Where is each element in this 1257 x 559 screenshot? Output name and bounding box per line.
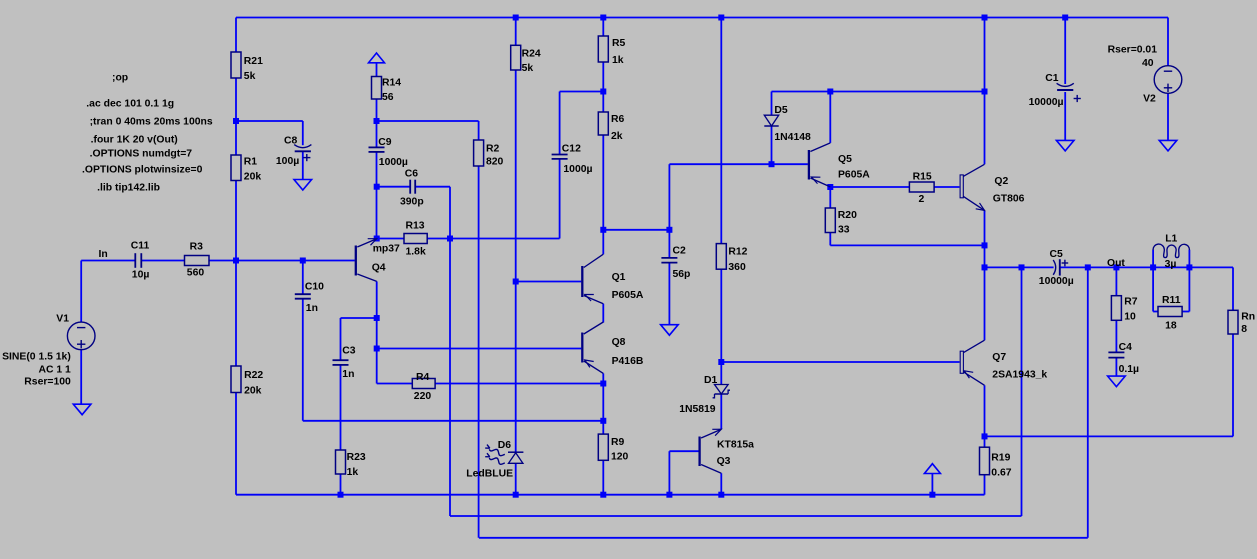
svg-text:R6: R6	[611, 114, 625, 125]
svg-text:In: In	[99, 249, 108, 260]
svg-text:1.8k: 1.8k	[406, 247, 426, 258]
svg-text:R20: R20	[838, 210, 857, 221]
svg-text:V1: V1	[56, 314, 69, 325]
svg-text:R24: R24	[522, 49, 541, 60]
svg-text:C5: C5	[1050, 249, 1064, 260]
svg-text:C1: C1	[1045, 73, 1059, 84]
svg-text:1000µ: 1000µ	[379, 157, 408, 168]
svg-text:P605A: P605A	[838, 170, 870, 181]
svg-text:18: 18	[1165, 321, 1177, 332]
svg-text:R15: R15	[913, 172, 932, 183]
svg-text:C4: C4	[1119, 342, 1133, 353]
svg-text:R13: R13	[406, 220, 425, 231]
svg-text:56: 56	[382, 92, 394, 103]
svg-text:R2: R2	[486, 143, 500, 154]
svg-text:Q1: Q1	[612, 272, 626, 283]
svg-text:1n: 1n	[306, 303, 318, 314]
svg-text:2: 2	[919, 194, 925, 205]
svg-text:5k: 5k	[522, 63, 534, 74]
svg-text:33: 33	[838, 224, 850, 235]
svg-text:100µ: 100µ	[276, 156, 299, 167]
svg-text:Rn: Rn	[1241, 312, 1255, 323]
svg-text:LedBLUE: LedBLUE	[466, 468, 513, 479]
svg-text:C9: C9	[378, 137, 392, 148]
svg-text:C8: C8	[284, 136, 298, 147]
svg-text:10µ: 10µ	[132, 269, 150, 280]
svg-text:.lib tip142.lib: .lib tip142.lib	[97, 182, 160, 193]
svg-text:D1: D1	[704, 375, 718, 386]
svg-text:C6: C6	[405, 168, 419, 179]
svg-text:Rser=100: Rser=100	[24, 377, 71, 388]
svg-text:3µ: 3µ	[1165, 259, 1177, 270]
svg-text:;tran 0 40ms 20ms 100ns: ;tran 0 40ms 20ms 100ns	[90, 117, 213, 128]
svg-text:10: 10	[1124, 311, 1136, 322]
svg-text:C11: C11	[131, 241, 150, 252]
svg-text:1000µ: 1000µ	[563, 164, 592, 175]
svg-text:D5: D5	[774, 105, 788, 116]
svg-text:R12: R12	[728, 246, 747, 257]
svg-text:.four 1K 20 v(Out): .four 1K 20 v(Out)	[91, 135, 178, 146]
svg-text:2k: 2k	[611, 131, 623, 142]
svg-text:;op: ;op	[112, 73, 128, 84]
svg-text:R19: R19	[991, 453, 1010, 464]
svg-text:KT815a: KT815a	[717, 440, 754, 451]
svg-text:R11: R11	[1162, 295, 1181, 306]
svg-text:Q8: Q8	[612, 337, 626, 348]
svg-text:.ac dec 101 0.1 1g: .ac dec 101 0.1 1g	[86, 98, 174, 109]
svg-text:56p: 56p	[673, 269, 691, 280]
svg-text:R14: R14	[382, 78, 401, 89]
svg-text:.OPTIONS numdgt=7: .OPTIONS numdgt=7	[90, 149, 193, 160]
svg-text:R5: R5	[612, 38, 626, 49]
svg-text:10000µ: 10000µ	[1039, 276, 1074, 287]
svg-text:1n: 1n	[342, 369, 354, 380]
svg-text:C3: C3	[342, 345, 356, 356]
svg-text:P605A: P605A	[612, 290, 644, 301]
svg-text:P416B: P416B	[612, 356, 644, 367]
svg-text:Q7: Q7	[992, 352, 1006, 363]
svg-text:AC 1 1: AC 1 1	[38, 365, 71, 376]
svg-text:40: 40	[1142, 58, 1154, 69]
svg-text:0.1µ: 0.1µ	[1119, 364, 1139, 375]
svg-text:mp37: mp37	[373, 244, 400, 255]
svg-text:R4: R4	[416, 372, 430, 383]
svg-text:R7: R7	[1124, 296, 1138, 307]
svg-text:R1: R1	[244, 157, 258, 168]
svg-text:C10: C10	[305, 282, 324, 293]
svg-text:V2: V2	[1143, 94, 1156, 105]
svg-text:10000µ: 10000µ	[1029, 97, 1064, 108]
svg-text:1k: 1k	[612, 55, 624, 66]
svg-text:1k: 1k	[347, 467, 359, 478]
svg-text:SINE(0 1.5 1k): SINE(0 1.5 1k)	[2, 352, 71, 363]
svg-text:Q4: Q4	[372, 262, 386, 273]
svg-text:360: 360	[728, 262, 746, 273]
svg-text:D6: D6	[498, 440, 512, 451]
svg-text:120: 120	[611, 451, 629, 462]
svg-text:Out: Out	[1107, 258, 1125, 269]
svg-text:L1: L1	[1165, 233, 1177, 244]
svg-text:Q5: Q5	[838, 154, 852, 165]
svg-text:C2: C2	[673, 245, 687, 256]
svg-text:Rser=0.01: Rser=0.01	[1108, 44, 1158, 55]
svg-text:R22: R22	[244, 370, 263, 381]
svg-text:R21: R21	[244, 56, 263, 67]
svg-text:390p: 390p	[400, 197, 424, 208]
svg-text:Q2: Q2	[994, 176, 1008, 187]
svg-text:1N4148: 1N4148	[774, 132, 811, 143]
svg-text:GT806: GT806	[993, 194, 1025, 205]
svg-text:2SA1943_k: 2SA1943_k	[992, 369, 1047, 380]
svg-text:5k: 5k	[244, 71, 256, 82]
svg-text:820: 820	[486, 156, 504, 167]
svg-text:1N5819: 1N5819	[679, 404, 716, 415]
svg-text:R9: R9	[611, 437, 625, 448]
svg-text:.OPTIONS plotwinsize=0: .OPTIONS plotwinsize=0	[82, 164, 203, 175]
svg-text:560: 560	[187, 268, 205, 279]
svg-text:20k: 20k	[244, 386, 262, 397]
svg-text:Q3: Q3	[717, 456, 731, 467]
svg-text:0.67: 0.67	[991, 468, 1011, 479]
svg-text:R3: R3	[190, 242, 204, 253]
svg-text:C12: C12	[562, 144, 581, 155]
svg-text:R23: R23	[347, 452, 366, 463]
svg-text:220: 220	[414, 391, 432, 402]
svg-text:20k: 20k	[244, 172, 262, 183]
svg-text:8: 8	[1241, 324, 1247, 335]
